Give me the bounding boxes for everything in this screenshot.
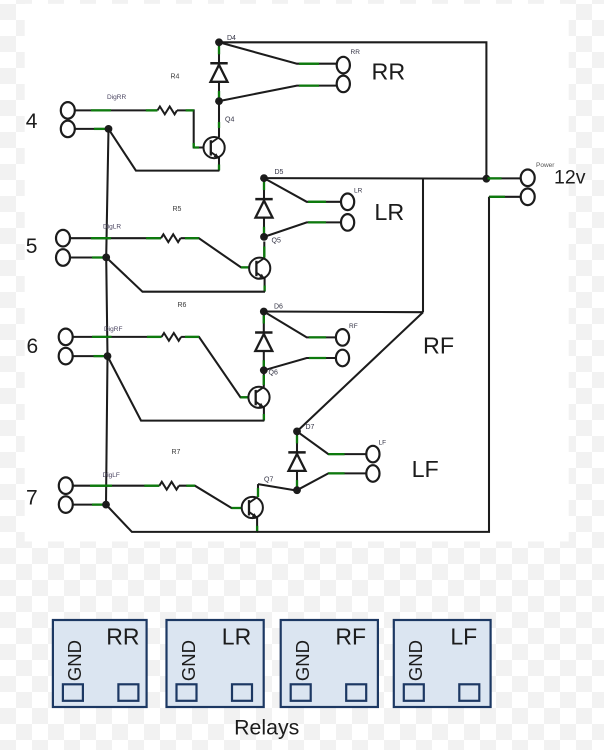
wire Q4 emitter return [109,129,220,171]
resistor R4 [158,107,178,115]
transistor Q4 [204,137,225,158]
resistor R7 [159,482,179,490]
wire D4 node to coil RR upper [219,42,337,63]
node D4 cathode (12v rail) [215,38,223,46]
svg-text:LF: LF [379,440,387,447]
node input 5 junction [102,254,110,262]
wire input 5 upper to R5 [70,237,161,239]
wire Q5 emitter return [106,257,265,291]
node D5 cathode (12v) [260,174,268,182]
wire Q6 emitter return [108,356,265,421]
svg-text:DigLR: DigLR [103,224,121,231]
wire 12v top rail [219,42,486,178]
svg-text:DigRR: DigRR [107,94,126,101]
svg-text:D6: D6 [274,304,283,311]
svg-text:GND: GND [64,640,85,681]
relay LR terminal pads [177,684,253,701]
svg-text:LF: LF [412,456,439,482]
wire input 7 lower to junction [73,504,103,506]
resistor R5 [161,234,181,242]
svg-text:RR: RR [372,59,406,85]
svg-text:D4: D4 [227,35,236,42]
svg-text:R7: R7 [172,449,181,456]
wire D6 node to coil RF upper [264,312,336,338]
input connector pins 7 [59,477,73,513]
svg-text:LR: LR [354,188,363,195]
relay box RR [53,620,147,707]
svg-text:DigRF: DigRF [104,326,122,333]
svg-text:Q7: Q7 [264,477,273,484]
svg-text:RF: RF [349,323,358,330]
svg-text:RF: RF [423,333,454,359]
transistor Q7 [242,497,263,518]
node D6 anode / Q6 collector [260,366,268,374]
relay RF terminal pads [291,684,367,701]
wire R4 to Q4 base [177,110,204,147]
svg-text:6: 6 [27,335,39,358]
svg-text:LF: LF [450,624,477,650]
svg-text:DigLF: DigLF [103,472,120,479]
relay box LR [167,620,264,707]
transistor Q6 [248,387,269,408]
svg-text:LR: LR [374,199,404,225]
svg-text:GND: GND [292,640,313,681]
svg-text:D7: D7 [306,424,315,431]
wire Q7 node to coil LF lower [297,473,366,490]
svg-text:GND: GND [178,640,199,681]
svg-text:R5: R5 [173,206,182,213]
wire R5 to Q5 base [181,238,250,267]
node D6 cathode (12v) [260,308,268,316]
wire input 4 upper to R4 [75,109,158,111]
svg-text:Relays: Relays [234,715,299,739]
wire input 4 lower to junction [75,128,105,130]
svg-text:D5: D5 [275,169,284,176]
node input 7 junction [102,501,110,509]
svg-text:RR: RR [351,49,361,56]
svg-text:Q5: Q5 [272,237,281,244]
svg-text:Q6: Q6 [269,370,278,377]
wire power ground pin [489,196,521,198]
svg-text:GND: GND [405,640,426,681]
svg-text:5: 5 [26,235,38,258]
relay box LF [394,620,491,707]
wire Q4 collector [218,104,220,137]
wire input 7 upper to R7 [73,485,160,487]
svg-text:RR: RR [106,624,139,650]
wire D7 node to coil LF upper [297,431,366,454]
wire 12v branch to D6 and D7 [264,179,423,432]
wire Q5 collector [263,242,265,258]
diode D5 [255,178,272,237]
wire input 6 upper to R6 [73,336,162,338]
relay RR terminal pads [63,684,138,701]
diode D6 [255,312,272,371]
relay coil connector LF [366,446,379,482]
svg-text:LR: LR [222,624,251,650]
relay coil connector RR [337,57,350,92]
relay box RF [281,620,378,707]
input connector pins 4 [61,102,75,137]
resistor R6 [162,333,182,341]
input connector pins 5 [56,230,70,266]
wire Q6 collector [263,374,265,387]
wire 12v feed to D5 [264,177,486,180]
diode D7 [288,431,305,490]
wire R6 to Q6 base [181,337,248,397]
wire Q5 node to coil LR lower [264,222,341,237]
svg-text:R4: R4 [171,74,180,81]
wire Q7 emitter return to power ground [106,197,489,532]
wire R7 to Q7 base [179,486,242,508]
svg-text:RF: RF [335,624,366,650]
node D7 anode / Q7 collector [293,486,301,494]
wire input 6 lower to junction [73,355,104,357]
power connector pins 12v [521,170,535,206]
node D4 anode / Q4 collector [215,97,223,105]
diode D4 [210,42,227,101]
svg-text:Q4: Q4 [225,117,234,124]
relay coil connector RF [336,329,349,366]
svg-text:7: 7 [26,486,38,509]
input connector pins 6 [59,329,73,365]
node input 4 junction [105,125,113,133]
wire input 5 lower to junction [70,256,103,258]
svg-text:R6: R6 [178,302,187,309]
relay LF terminal pads [404,684,480,701]
wire 12v junction to power pin [486,177,520,179]
svg-text:4: 4 [26,110,38,133]
node 12v junction [483,175,491,183]
wire Q7 collector to D7 node [258,484,297,497]
node D5 anode / Q5 collector [260,233,268,241]
relay coil connector LR [341,194,354,231]
svg-text:12v: 12v [554,167,586,189]
wire Q4 collector node to coil RR lower [219,86,337,102]
node input 6 junction [104,352,112,360]
wire Q6 node to coil RF lower [264,358,336,370]
node D7 cathode (12v) [293,428,301,436]
transistor Q5 [249,258,270,279]
wire GND rail (shared input return) [106,129,109,505]
wire D5 node to coil LR upper [264,178,341,202]
svg-text:Power: Power [536,162,555,169]
